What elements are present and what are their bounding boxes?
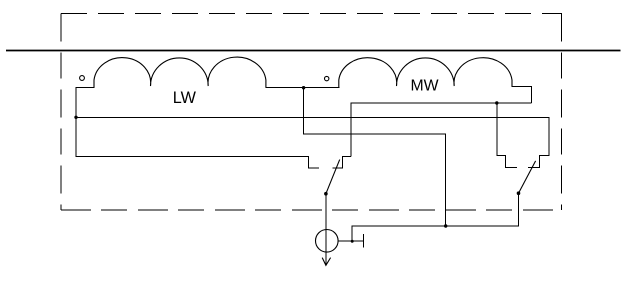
wire jack side to plug tip: [338, 240, 363, 242]
switch S1 right contact pad: [333, 156, 351, 168]
junction dot top net: [495, 101, 498, 104]
winding-start circle of L2: [325, 76, 329, 80]
inductor L2 MW winding arcs: [339, 58, 512, 88]
wire L1 left terminal down to S1 left contact: [76, 87, 319, 168]
inductor L1 LW terminal legs: [76, 87, 304, 89]
jack circle J1: [316, 230, 339, 253]
wire S1 pivot down through jack to arrow: [325, 194, 327, 266]
arrow head output: [322, 258, 330, 266]
switch S2 pivot dot: [517, 191, 521, 195]
inductor L2 MW terminal legs: [304, 87, 532, 104]
shield box dashed top edge: [61, 13, 562, 15]
svg-text:LW: LW: [173, 89, 197, 107]
junction dot tap bus: [74, 116, 77, 119]
shield box dashed bottom edge: [61, 209, 562, 211]
winding-start circle of L1: [80, 76, 85, 81]
switch S2 lever: [519, 161, 536, 193]
wire S1 right contact up to top net: [351, 103, 532, 156]
shield box dashed right edge: [561, 14, 563, 211]
switch S2 left contact pad: [497, 103, 517, 167]
inductor L1 LW winding arcs: [94, 57, 266, 87]
wire tap bus across to S2 right contact: [76, 117, 549, 167]
junction dot bottom rail: [444, 224, 447, 227]
wire coils junction down and across to bottom rail: [304, 88, 446, 226]
wire S2 pivot down to bottom rail and to jack branch: [352, 193, 518, 241]
aerial ferrite rod line: [6, 50, 621, 52]
junction dot coils junction: [302, 86, 305, 89]
switch S1 lever: [326, 160, 340, 194]
shield box dashed left edge: [60, 14, 62, 211]
svg-text:MW: MW: [411, 77, 439, 94]
junction dot jack side wire: [351, 240, 354, 243]
switch S1 pivot dot: [324, 192, 328, 196]
plug tip bar: [362, 234, 364, 248]
